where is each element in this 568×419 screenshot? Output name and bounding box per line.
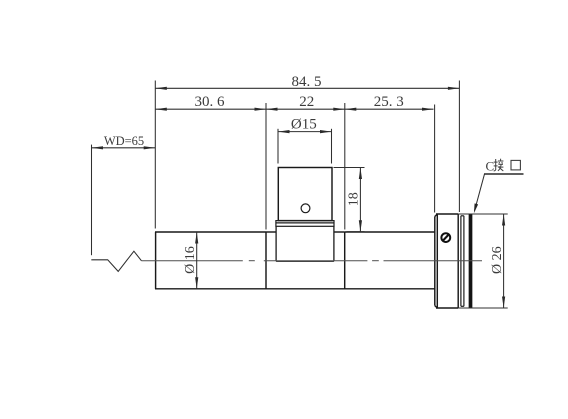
svg-text:Ø15: Ø15: [291, 116, 317, 132]
dimension line row 30.6 / 22 / 25.3: [155, 108, 433, 110]
label C接口 leader arrowhead: [474, 203, 478, 213]
extension lines 18: [334, 167, 365, 169]
flange ring washer: [461, 216, 464, 306]
label C接口 underline: [484, 173, 524, 175]
extension line barrel front x=155.3: [154, 81, 156, 229]
extension line WD left: [91, 145, 93, 256]
dimension line WD=65: [92, 147, 156, 149]
extension line x=266: [265, 103, 267, 230]
block small circle: [301, 204, 310, 213]
dimension line Ø26 (vertical): [503, 214, 505, 308]
WD=65 arrows: [92, 146, 104, 149]
square block on top: [278, 168, 332, 221]
svg-text:WD=65: WD=65: [104, 134, 144, 148]
dimension line 18 (vertical): [359, 168, 361, 232]
svg-text:22: 22: [299, 94, 314, 110]
extension lines Ø15: [277, 129, 279, 164]
lens barrel left section outline: [155, 232, 435, 289]
set screw on flange: [441, 233, 450, 242]
svg-text:Ø 16: Ø 16: [183, 246, 198, 274]
Ø15 arrows: [278, 130, 290, 133]
dimension line 84.5: [155, 87, 459, 89]
Ø16 arrows: [195, 232, 198, 244]
svg-text:30. 6: 30. 6: [195, 94, 226, 110]
extension line x=434.6: [434, 105, 436, 213]
block tube hidden lower part inside barrel: [276, 226, 334, 261]
extension line x=344.8: [344, 103, 346, 230]
extension lines Ø26: [458, 213, 508, 215]
barrel right section top edge: [345, 231, 435, 233]
svg-text:84. 5: 84. 5: [292, 74, 322, 90]
dimension line Ø16 (vertical): [196, 232, 198, 289]
collar under block: [276, 221, 334, 227]
row2 arrows: [155, 108, 167, 111]
flange rear thick rim: [469, 214, 473, 309]
glyph 接 (drawn strokes): [494, 159, 504, 171]
svg-text:C: C: [486, 158, 495, 173]
18 arrows: [359, 168, 362, 180]
arrowheads: [92, 87, 506, 308]
dimension line Ø15: [278, 131, 332, 133]
84.5 arrows: [155, 87, 167, 90]
center axis line: [141, 260, 482, 262]
C-mount flange main disc: [435, 214, 458, 308]
svg-text:Ø 26: Ø 26: [490, 246, 505, 274]
barrel middle section edges: [266, 232, 345, 289]
extension line x=459.4 flange rear: [458, 81, 460, 213]
svg-text:18: 18: [346, 192, 361, 206]
break zigzag at working distance: [91, 251, 141, 271]
label C接口 leader line: [475, 174, 485, 211]
Ø26 arrows: [502, 214, 505, 226]
svg-text:25. 3: 25. 3: [374, 94, 404, 110]
glyph 口 (drawn strokes): [511, 160, 520, 170]
